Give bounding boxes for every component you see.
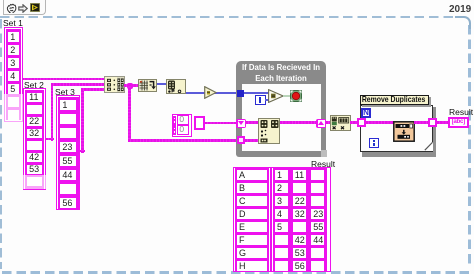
wire tunnel to subVI (366, 121, 394, 124)
tunnel left on for loop (357, 118, 366, 127)
remove duplicates subVI icon (393, 121, 415, 142)
hand tool icon (5, 2, 17, 13)
label 2019 (449, 4, 473, 15)
i terminal of for loop (369, 138, 379, 148)
sort 1D array node (138, 79, 157, 92)
while loop title (236, 63, 326, 84)
wire to result indicator (437, 121, 449, 124)
wire build array output (124, 84, 138, 87)
wire strip node to for loop (350, 121, 357, 124)
wire Set1 to Build Array (22, 78, 105, 81)
junction node (127, 83, 133, 89)
label Set 1 (3, 18, 23, 28)
snippet border top (dashed) (0, 16, 458, 18)
wire Set3 stub (80, 150, 86, 153)
for loop body (360, 105, 433, 152)
array constant Set 3 (56, 95, 80, 210)
wire tunnel to node lower input (245, 139, 259, 142)
wire blue sort to size (157, 83, 166, 85)
strip empty node after loop (330, 115, 351, 131)
tunnel blue on loop border (237, 90, 244, 97)
for loop shadow bottom (362, 152, 436, 157)
wire Set3 horizontal (81, 88, 105, 91)
label Remove Duplicates (360, 95, 429, 105)
loop resize glyph bottom-right (321, 150, 328, 157)
iteration terminal i (255, 95, 266, 105)
build array node (104, 76, 125, 93)
table letters A-H (233, 167, 271, 273)
snippet border left (dashed) (0, 19, 2, 269)
array-empty check node (166, 79, 186, 94)
table result numbers (271, 167, 331, 273)
loop condition (stop) terminal (290, 90, 302, 102)
for loop shadow right (433, 107, 436, 157)
label Set 3 (55, 87, 75, 97)
while loop interior (242, 84, 321, 151)
wire SR to node (246, 121, 259, 124)
array accumulate node inside loop (258, 118, 280, 144)
wire vertical from junction (128, 85, 131, 141)
run (LabVIEW) icon (30, 3, 40, 12)
tunnel right on for loop (428, 118, 437, 127)
tunnel lower on loop border (237, 136, 245, 144)
2D empty string array constant (172, 114, 192, 137)
wire boolean to stop (283, 95, 291, 96)
wire Set3 vertical (81, 89, 84, 153)
positioning arrow icon (18, 4, 28, 13)
array constant Set 2 (23, 88, 46, 190)
for loop resize glyph (424, 142, 433, 151)
shift register right (316, 119, 326, 129)
wire node to right SR (280, 121, 317, 124)
wire Set2 vertical (51, 84, 54, 141)
comparator triangle outside loop (204, 86, 217, 99)
snippet border bottom (dashed) (2, 271, 472, 274)
wire right SR to strip node (326, 121, 331, 124)
wire to shift register (205, 122, 237, 125)
toolbar box (3, 0, 46, 15)
wire long horizontal to loop tunnel (128, 139, 238, 142)
label Result (top) (449, 107, 473, 117)
shift register left (236, 119, 246, 129)
snippet border right (dashed) (468, 25, 471, 268)
wire Set2 stub (46, 138, 54, 141)
empty string element constant (194, 116, 205, 130)
wire from i terminal (265, 99, 270, 101)
equal? comparator inside loop (268, 89, 284, 103)
N terminal (361, 108, 371, 118)
snippet border top-right solid corner (455, 16, 471, 29)
while loop border (236, 61, 326, 157)
array constant Set 1 (4, 27, 23, 122)
wire blue to comparator (186, 92, 237, 94)
wire Set2 horizontal (51, 83, 105, 86)
wire subVI to right tunnel (414, 121, 428, 124)
string indicator Result (448, 117, 469, 128)
wire blue inside loop (244, 92, 273, 94)
label Result (bottom table) (311, 159, 339, 169)
label Set 2 (24, 80, 44, 90)
